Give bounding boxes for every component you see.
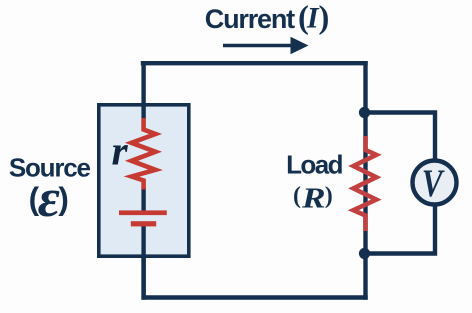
current arrow shaft (223, 44, 293, 48)
wire bottom (141, 295, 367, 299)
svg-text:R: R (301, 181, 326, 213)
wire resistor to battery (141, 187, 145, 211)
svg-text:Load: Load (286, 150, 342, 180)
svg-text:): ) (319, 0, 330, 36)
wire voltmeter branch bottom (366, 205, 435, 254)
svg-text:r: r (112, 128, 129, 174)
wire top (141, 61, 368, 65)
battery long plate (119, 210, 167, 215)
svg-text:V: V (422, 162, 445, 205)
load resistor R (red zigzag) (353, 136, 376, 231)
svg-text:Current: Current (205, 4, 295, 34)
node bottom junction (359, 248, 370, 259)
svg-text:): ) (325, 183, 333, 209)
wire into source box top (141, 103, 145, 119)
wire battery to bottom (141, 226, 145, 298)
svg-text:ε: ε (38, 168, 60, 228)
wire right (363, 61, 367, 300)
svg-text:(: ( (293, 183, 301, 209)
resistor r internal (red zigzag) (132, 118, 156, 190)
battery short plate (131, 221, 156, 226)
node top junction (359, 107, 370, 118)
svg-text:): ) (58, 180, 69, 216)
wire voltmeter branch top (366, 113, 435, 162)
voltmeter V (413, 161, 457, 205)
source box (99, 105, 189, 256)
wire left (141, 61, 145, 300)
current arrow head (291, 37, 309, 54)
